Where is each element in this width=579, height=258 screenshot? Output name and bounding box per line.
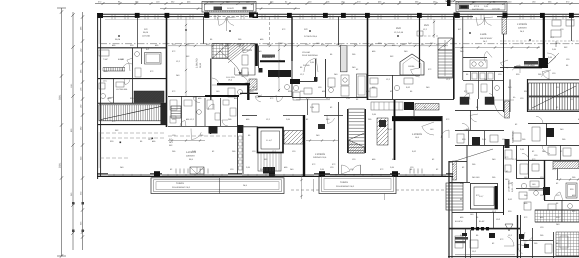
svg-text:WIATROŁAP: WIATROŁAP [472, 8, 484, 11]
toilets dark right column [460, 97, 469, 105]
outer wall top [97, 13, 579, 15]
wall y124 left block [98, 124, 166, 126]
stair S4 side walls [347, 109, 349, 153]
svg-text:3.POKÓJ: 3.POKÓJ [242, 48, 253, 52]
hollow steel column [253, 13, 259, 19]
svg-text:DZIENNY: DZIENNY [186, 155, 195, 158]
vertical dim drop x301 [301, 176, 303, 199]
row1 fixtures [99, 50, 109, 56]
vertical dim x434 [433, 19, 435, 38]
thick wall x394 [394, 100, 396, 160]
stair S4 center [349, 109, 365, 153]
corridor wall y99 right [368, 98, 454, 100]
svg-text:POŁUDNIOWY 24,2: POŁUDNIOWY 24,2 [336, 185, 355, 188]
elevator E2 [258, 128, 284, 153]
stair S3 walking line [444, 40, 446, 76]
big corridor door arc [494, 100, 514, 117]
vertical dim drop x384 [384, 193, 386, 200]
wing bottom fixtures [455, 236, 463, 248]
wing fixtures right [520, 164, 528, 174]
door arc right mid [536, 116, 543, 123]
interior dim row y45 [168, 45, 448, 47]
wing partitions above y228 [476, 212, 478, 228]
washbasin row entry [470, 60, 487, 68]
dark block right mid [546, 128, 554, 137]
wing big door arc bottom [504, 237, 514, 246]
partitions rooms x168-205 [181, 96, 183, 126]
partition x392 upper [392, 75, 394, 99]
wing tub right [566, 183, 577, 198]
wall y75 right-center [368, 74, 420, 76]
tiled bath bottom right [556, 232, 579, 256]
svg-text:9.G: 9.G [146, 48, 150, 51]
right column fixtures x528-579 [532, 127, 540, 141]
bathroom fixtures center-right [329, 88, 334, 93]
wall y78 left block [98, 78, 166, 80]
main wall x166 [166, 17, 168, 127]
door arcs kitchen block [243, 44, 252, 53]
svg-text:TARAS: TARAS [176, 182, 184, 185]
svg-text:10.P: 10.P [496, 218, 501, 221]
canopy posts [204, 13, 209, 18]
winder stair fan treads [228, 44, 255, 76]
wing dim row right [556, 179, 579, 181]
corridor wall y93 + arcs [240, 92, 258, 94]
stair S5 wing [446, 183, 463, 210]
hatch band corridor x504 [505, 101, 510, 118]
landing left of S6 [509, 79, 511, 112]
svg-text:PM1: PM1 [424, 24, 430, 27]
black wall y61 [260, 60, 285, 62]
window glazing in bottom wall [108, 174, 150, 176]
center dashed axis line [100, 43, 579, 45]
hall vertical dim line x186 [185, 17, 187, 96]
svg-text:38,04: 38,04 [115, 38, 121, 41]
partition x315 [315, 59, 317, 81]
partition top band x203 [203, 17, 205, 44]
stair band left block [99, 105, 166, 121]
partitions left block row1 [132, 48, 134, 103]
window division ticks bottom wall [114, 174, 442, 177]
dimension line left inner [82, 12, 84, 250]
svg-text:7.WC: 7.WC [103, 58, 109, 61]
point markers top band [118, 35, 120, 37]
terrace T2 [319, 175, 396, 194]
fixtures kitchen block [242, 55, 248, 65]
dark counter row2 [134, 91, 164, 103]
stair S4 cut hatch [349, 140, 365, 153]
left lower room point markers [152, 138, 154, 140]
wall y71 entry [463, 70, 504, 72]
thick L wall at stair bottom [217, 83, 250, 85]
svg-text:372 0: 372 0 [474, 5, 480, 8]
hatched insulated wall x503 [502, 17, 507, 34]
far right room fixtures upper [552, 20, 561, 26]
dark text smudge pom gosp [262, 55, 275, 58]
stair S3 landing [438, 38, 453, 50]
canopy interior text blocks [214, 7, 223, 11]
stair left wall [210, 59, 212, 101]
main entry double door arcs [218, 17, 227, 25]
outer wall left [97, 14, 99, 179]
hatch strip right of elevator [284, 131, 303, 145]
wing bottom wall edge [448, 256, 579, 258]
svg-text:12,2×2,85: 12,2×2,85 [394, 31, 404, 34]
entry double doors B [476, 17, 485, 25]
tiled stair landing [212, 44, 228, 59]
wall x338 room division [338, 102, 340, 174]
black rect left of laundry [290, 79, 300, 84]
svg-text:POŁUDNIOWY 38,2: POŁUDNIOWY 38,2 [172, 186, 191, 189]
columns on top wall [135, 13, 140, 18]
double doors center bottom wall [342, 165, 351, 174]
door arc big center [304, 58, 318, 72]
svg-text:DZIENNY 28,6: DZIENNY 28,6 [313, 156, 327, 159]
shaft hatched small [249, 79, 257, 90]
stair walking line with arrow [220, 51, 240, 75]
wall y81 laundry [300, 80, 317, 82]
dark block wing [543, 187, 550, 195]
interior dim dashes center [306, 140, 338, 142]
svg-text:120×240: 120×240 [302, 51, 311, 54]
door arc room1 bottom [191, 129, 201, 140]
dashed soffit lines lower left room [100, 132, 165, 134]
svg-text:2.POKÓJ: 2.POKÓJ [517, 22, 528, 26]
toilet partitions below y71 [470, 71, 472, 80]
outer wall bottom of main band [97, 175, 453, 177]
black blocks in bottom wall [154, 171, 160, 176]
dimension line left outer [61, 8, 63, 256]
wing below wall rooms [465, 229, 467, 258]
black block below elevator risers [263, 167, 275, 174]
svg-text:WJAZD: WJAZD [227, 7, 234, 10]
triangle symbol [505, 224, 513, 231]
washer stack [341, 75, 349, 85]
main wall x454 [453, 17, 455, 99]
wc fixture below stair [228, 88, 235, 97]
bathtub vertical at x360 [357, 74, 367, 97]
partition x463 [462, 17, 464, 80]
wing bottom dark text rows [455, 237, 468, 240]
svg-text:KL.: KL. [513, 96, 516, 99]
dashed ground line between terraces [291, 189, 319, 191]
far right door arc y70 [542, 71, 550, 79]
wing partitions x560 [560, 145, 562, 160]
corridor door arc right [422, 122, 434, 135]
interior dim dashes bottom band [168, 140, 205, 142]
wardrobe X boxes bottom [190, 167, 204, 174]
door arcs right block corridor [501, 60, 509, 68]
kitchen row below corridor right [404, 102, 414, 110]
svg-text:2.PRAL: 2.PRAL [303, 64, 311, 67]
svg-text:POM.GOSP: POM.GOSP [262, 56, 274, 59]
svg-text:2.BIURO: 2.BIURO [196, 58, 199, 68]
svg-text:SZAFA: SZAFA [408, 65, 415, 68]
svg-text:DZIENNY: DZIENNY [518, 27, 527, 30]
dim mark above entrance B [445, 0, 456, 2]
wing bottom extra partitions [470, 230, 472, 258]
hatched band right wing [553, 162, 579, 169]
svg-text:WEJŚCIOWY: WEJŚCIOWY [480, 37, 493, 40]
wall below elevator [452, 211, 503, 213]
partition x307-338 rooms [307, 99, 309, 115]
row2 partitions [113, 79, 115, 103]
canopy side dimension lines [160, 8, 202, 10]
wall x210 lower stub [210, 126, 212, 134]
wing left wall hatch [453, 161, 457, 180]
small stair steps to terrace [171, 106, 181, 118]
svg-text:38,95: 38,95 [199, 62, 202, 68]
dashed partition top band x269 [269, 17, 271, 44]
ladder shaft x341 [341, 46, 348, 72]
bathtub row1 right [145, 53, 162, 65]
stair S6 double flight [529, 83, 579, 96]
wing door arcs upper [542, 145, 550, 153]
svg-text:POLE WIDZENIA: POLE WIDZENIA [302, 54, 318, 57]
black block below stair wall [259, 68, 263, 73]
elevator E1 wing [471, 184, 498, 210]
right column walls [455, 109, 504, 111]
comb closet row1 [103, 68, 125, 72]
svg-text:PM2: PM2 [396, 27, 402, 30]
pentagon wardrobe niche [400, 54, 424, 75]
wing vestibule walls [449, 160, 467, 162]
wing wall y228 [449, 228, 520, 230]
main wall x292 [291, 17, 293, 61]
black post near entrance [447, 0, 451, 6]
black wall right of stair [255, 44, 258, 67]
svg-text:2.POKÓJ 28,6: 2.POKÓJ 28,6 [304, 35, 318, 38]
partition x258 [258, 46, 260, 68]
interior dim row right y47 [455, 47, 540, 49]
row1 door arcs [122, 63, 130, 71]
wing right extra partitions [529, 189, 545, 191]
canopy comb steps [206, 11, 253, 13]
svg-text:1.KL.SCH: 1.KL.SCH [226, 76, 235, 79]
svg-text:1.KUCHNIA: 1.KUCHNIA [524, 64, 535, 67]
door arc hall [212, 78, 219, 85]
wing mid partitions x516-544 [516, 187, 544, 189]
window mullion ticks above bottom wall [175, 169, 177, 174]
svg-text:3541: 3541 [59, 94, 62, 100]
dark door block x315 [314, 77, 318, 82]
dimension line left mid [72, 12, 74, 250]
dashed soffit room1 [168, 135, 236, 137]
entrance B posts [454, 13, 459, 18]
fixtures rooms x168-205 [170, 100, 177, 110]
fixture upper right room [417, 31, 423, 36]
partition top band x137 [137, 17, 139, 48]
riser column x237-243 [237, 125, 239, 174]
far right upper room content [551, 30, 561, 37]
main wall x419 [419, 17, 421, 68]
stair S3 treads [438, 50, 453, 78]
stair S6 cut line [532, 86, 576, 108]
svg-text:2.POKÓJ: 2.POKÓJ [315, 152, 326, 156]
row2 door arcs [108, 97, 114, 103]
door arc bottom left entry [411, 68, 420, 77]
corner block top-left [97, 13, 103, 18]
duct grille below elevator [258, 153, 281, 171]
wing left wall [448, 161, 450, 258]
wing corridor wall x503 [503, 145, 505, 215]
window mullion ticks top wall [112, 14, 566, 19]
bathroom fixtures center-left [293, 85, 298, 90]
svg-text:4.POKÓJ: 4.POKÓJ [412, 132, 423, 136]
black posts on wall y228 [471, 227, 474, 230]
dimension line top [95, 3, 579, 5]
main wall x367 [367, 17, 369, 100]
hatched block upper right of wing bottom [535, 210, 579, 222]
thick wall x304 [303, 115, 305, 176]
small rooms x205-240 [220, 98, 222, 126]
corridor arcs right column [470, 114, 478, 122]
svg-text:3.HOL: 3.HOL [480, 33, 488, 36]
stair S6 walls [527, 79, 529, 112]
washroom wall y80 [463, 79, 504, 81]
dark fixture rects corridor center [318, 124, 325, 129]
wall y57 entry hall [463, 56, 487, 58]
entrance vestibule B [456, 2, 507, 12]
svg-text:120×240: 120×240 [492, 8, 501, 11]
vertical dim line x279 [278, 42, 280, 92]
terrace T1 [151, 178, 284, 194]
wc fixtures right-center [370, 78, 378, 84]
partition top band x571 [571, 17, 573, 41]
wall y115 x324-343 [324, 114, 343, 116]
kitchen label dark right [524, 61, 538, 65]
wall y47 left block [98, 47, 166, 49]
svg-text:1 L 4,7: 1 L 4,7 [266, 139, 273, 142]
main wall x544 [543, 17, 545, 58]
left dim small end markers [72, 202, 75, 205]
diagonal door leaf right block [547, 53, 559, 65]
wall above elevator [449, 181, 470, 183]
canopy entrance steps A [202, 2, 256, 13]
wing dark kitchen blocks [489, 233, 495, 238]
wing diagonal ramp line [449, 149, 493, 163]
wall x442 vertical [441, 116, 443, 176]
partition x325 [325, 59, 327, 97]
row2 wc fixtures [99, 83, 105, 89]
dark rect mid-left [209, 127, 218, 134]
svg-text:38,05: 38,05 [143, 31, 149, 34]
dark hatched wall corner x160 [161, 103, 167, 124]
corridor wall y96 center-left [168, 95, 205, 97]
riser duct x377-388 [377, 118, 388, 145]
thick black wall y118 [392, 116, 442, 121]
dashed shelf line [420, 35, 438, 37]
wc partitions below corridor [393, 110, 395, 116]
wall y103 left block [98, 102, 166, 104]
wing corridor left fixtures [505, 150, 512, 159]
walls connecting elevator area [242, 114, 257, 116]
dark counter band kitchen [268, 70, 291, 77]
bottom cell fixtures right column [472, 137, 480, 145]
wing rooms x510-579 y145-215 [516, 145, 518, 178]
black corner block x539-548 [539, 58, 549, 68]
svg-text:11.PRALNIA: 11.PRALNIA [116, 88, 128, 91]
wing bottom arc2 [523, 232, 532, 241]
svg-text:TARAS: TARAS [340, 181, 348, 184]
corridor piece x504-528 [503, 67, 505, 112]
thick wall y67 right [514, 66, 542, 68]
svg-text:8.KUCH: 8.KUCH [455, 220, 463, 223]
partition top band x338 [338, 17, 340, 45]
svg-text:9.ŁAZ: 9.ŁAZ [479, 220, 485, 223]
svg-text:2541: 2541 [59, 162, 62, 168]
svg-text:120×240: 120×240 [142, 35, 151, 38]
washroom partitions below y80 [478, 80, 480, 99]
corridor wall y97.5 center-right [292, 97, 368, 99]
dashed line y41 right [500, 40, 579, 42]
